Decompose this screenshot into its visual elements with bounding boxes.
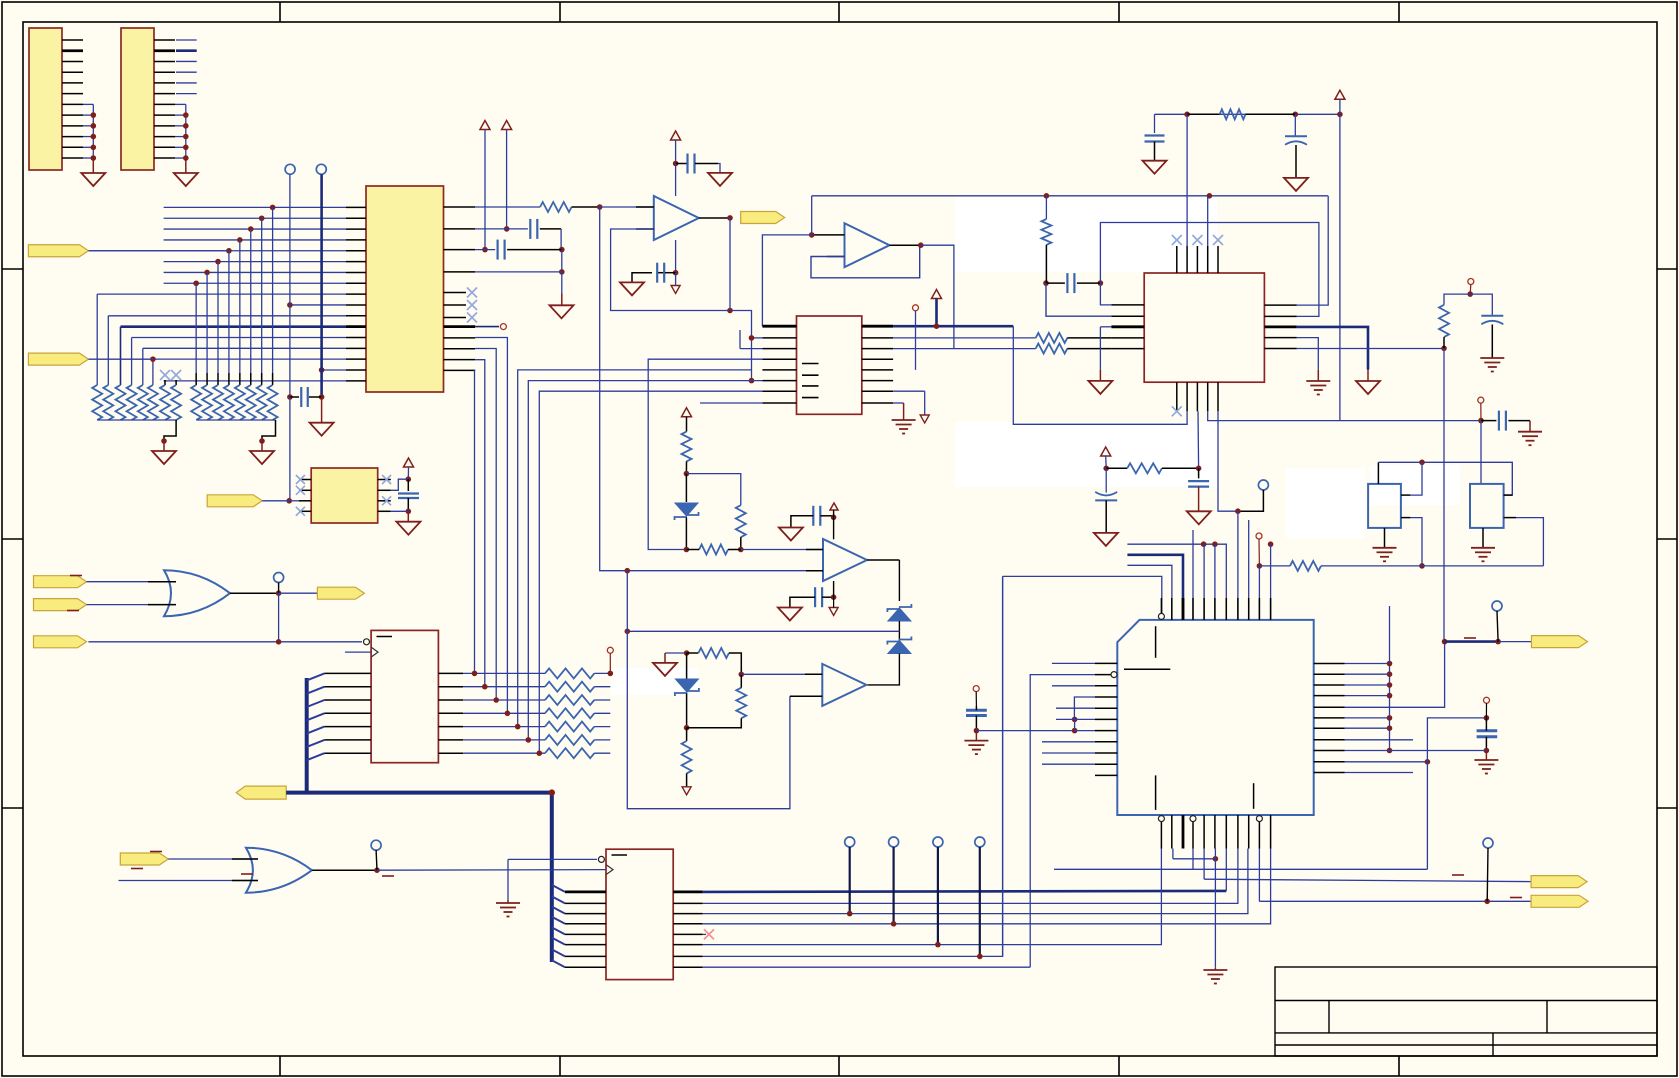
wire F11 [262,500,289,502]
ground G-C8 [1284,178,1308,191]
wire row554 bold [1127,555,1183,620]
capacitor C18 [407,479,409,491]
wire C14 to U7 [976,730,1074,732]
blank label box B [1286,468,1365,538]
connector J1 [29,28,62,170]
wire U2 pin6 row to U3 [528,381,762,740]
net flag F11 [207,495,262,507]
wire U7 left bubble pin [1030,675,1095,968]
bus entries U3 [307,673,325,680]
wire U7 gnd pin down [1172,849,1174,859]
pins U7 bottom [1160,815,1162,849]
wire U2 pin3 left [740,348,762,350]
no-connect circle NC5 [371,840,381,850]
pins U7 top [1160,598,1162,620]
power arrow P8 [830,503,838,510]
wire U2 pin8 right to earth [893,402,904,404]
wire U2A below cap [675,240,677,273]
ground G-C3 [708,173,732,186]
capacitor C12 polarized [1105,468,1107,492]
wire U2 pin1 net down and to U5 [1013,326,1187,424]
wire Y1 bottom earth [1384,528,1386,548]
no-ERC mark U5 bottom [1172,406,1182,416]
wire U6B minus input [790,695,822,697]
wire row913 [703,849,1248,914]
net flag F2 [28,353,88,365]
pins U3 right [438,672,463,674]
resistor R13 [686,417,688,432]
power arrow P2 [502,121,512,130]
net flag F9 [1531,876,1587,888]
wire U2A minus feedback [611,229,752,381]
wire C2b junctions [561,250,563,272]
wire feedback net vertical [627,571,790,809]
wire U7 right pin row761 [1345,761,1428,763]
wire diode bottom [867,654,899,685]
wire F1 [88,250,229,252]
wire U2 pin3 right to R7 [893,348,1036,350]
no-ERC marks U6 right [382,475,391,484]
pins U5 right [1264,304,1296,306]
wire row923 [703,849,1271,924]
ground G-Z2 [653,663,677,676]
wire U2A output [699,217,730,219]
capacitor C2a [475,228,528,230]
ground G-U5b [1356,381,1380,394]
MCU U7 [1117,620,1313,815]
no-connect circle NC2 [316,164,326,174]
wire row879 to flag [1203,849,1205,880]
IC U4 [606,849,673,979]
designator circle D4 [973,686,979,692]
wire grid rows into U1 [164,206,346,208]
wire gnd arrow z2 [665,652,687,654]
ground G-U5a [1088,381,1112,394]
wire F8 to G2 [168,858,258,860]
wires U7 right pins to rail [1345,663,1390,665]
blank label box C [611,668,699,695]
IC U3 [371,630,438,762]
wire row944 [703,849,1162,945]
connector J2 [121,28,154,170]
earth ground GE-Y1 [1373,547,1397,549]
op-amp U2A [654,196,699,240]
wire row544 [1127,544,1226,620]
wire zener1 top loop [686,474,740,506]
wire U5 pin5 right [1297,348,1444,350]
no-ERC marks U1 right [467,288,477,298]
wire F3 [87,581,177,583]
no-ERC mark U4 pin5 [703,933,706,935]
earth ground GE-U7 [1214,968,1216,970]
wire RP1 common to ground [97,419,176,421]
designator circle D5 [1484,697,1490,703]
no-ERC marks U6 left [296,475,305,484]
capacitor C2b [475,249,495,251]
earth ground GE-Y2 [1471,547,1495,549]
blank label box A [955,198,1217,272]
resistor R16 [687,652,699,654]
wire U6 pin4 right [391,510,409,512]
wire G1 to flag [279,592,318,594]
wires U3 row connects [463,672,545,674]
pins U1 right nc stubs [444,292,467,294]
wire R1 out to opamp U2A [600,206,654,208]
wire RP2 common to ground [197,419,276,421]
no-connect circle NC4 [274,573,284,583]
resistor R17 [736,688,746,719]
capacitor C-grid [287,394,293,400]
wire U4 pin1 from earth [508,858,597,860]
wire G1 output [230,592,279,594]
IC U6 [311,468,378,523]
wire C11 down to Y2 [1480,421,1482,484]
wire P1 stem [484,130,486,250]
wire chain to ground [561,272,563,294]
pins U1 right bottom [444,337,476,339]
pins U2 right [862,325,893,328]
earth ground GE-U5 [1306,380,1330,382]
wire cap to gnd x322 [321,397,323,423]
wire net462 [1378,462,1512,495]
wire gnd bus of J1 [83,103,93,105]
capacitor C4 [656,272,665,274]
capacitor C11 [1481,420,1496,422]
no-connect circles bottom [845,837,855,847]
or-gate G1 [164,570,230,616]
pins U5 top [1176,246,1178,273]
pins U4 left [565,891,606,894]
wire U7 left pin4 [1074,697,1095,719]
wire P3 stem [675,140,677,164]
no-connect circle NC1 [285,164,295,174]
no-ERC marks U5 top [1172,235,1182,245]
power arrow P4 [932,290,942,299]
ground of J2 [174,173,198,186]
net flag F5 [317,587,364,599]
ground G-C13 [1187,511,1211,524]
wires U3 verticals to U1 [475,338,507,714]
designator circle U2pin [913,305,919,311]
wire U7 right pin row739 [1345,739,1414,741]
op-amp U2B [845,223,890,267]
ground RP1 [152,451,176,464]
pins U6 left [299,479,311,481]
pins U3 left [324,672,371,674]
wire C15 to rail [1390,750,1487,752]
ground G-C2 [550,305,574,318]
capacitor C15 [1477,729,1498,732]
wire NC1 net down to U6 [289,397,291,501]
resistor R15 [699,545,728,555]
designator circle U1 pin [500,324,506,330]
bus main [286,793,552,962]
ground G-grid [310,423,334,436]
bubble U3 pin1 [364,639,370,645]
wire P4 stem bold [935,299,938,327]
resistor R1 [475,206,540,208]
resistor R14 [736,505,746,537]
wire row967 [703,966,1031,968]
pin bar U4 [612,854,628,856]
component Y2 box [1470,484,1504,528]
resistor R9 vertical [1045,196,1047,219]
pins U5 left [1111,304,1144,306]
resistor array RP1 [92,385,102,420]
blank label box D [955,422,1217,487]
wire F2 [88,358,152,360]
wire bus corner dot [549,789,555,795]
wire MCU top pins up [1192,530,1194,620]
wire U5 pin4 right earth [1297,338,1319,370]
wire U5 pin1 right up [1297,196,1328,305]
wire F4 [87,604,177,606]
wire NC2 vertical bold [320,174,323,397]
wire U7 right pin row707 to R10net [1345,642,1445,708]
arrow VEE U2A [671,286,680,294]
designator circle D2 [1478,397,1484,403]
wire G2 output [312,869,377,871]
wire G1 down to F6 net [278,593,280,642]
wire C2a corner [560,229,562,250]
wire Y2 bottom earth [1482,528,1484,548]
wire U7 left pin5 [1056,707,1095,709]
wire row271 to chain [475,271,562,273]
wire node down to MCU [1237,511,1239,620]
wire diode mid [898,621,900,641]
power arrow P1 [480,121,490,130]
pins U7 right [1314,663,1345,665]
wire U6B plus input [741,673,822,675]
wire to opamp U6A plus [741,549,823,551]
net flag F4 [34,599,87,611]
ground G-C17 [778,608,802,621]
wire U2B plus input [812,234,845,236]
pin U1 right bold [444,325,476,328]
pins U1 right top [444,206,476,208]
capacitor C7 [1154,114,1156,133]
wire C11 to earth [1529,421,1531,432]
wire row565 [1127,565,1172,620]
wire U6A output [867,559,899,561]
bubbles U7 bottom [1158,816,1164,822]
pins U5 bottom [1176,382,1178,411]
wire U5 pin to vcc net [1207,196,1209,246]
wire C3 to ground [718,164,720,173]
designator circle D1 [1468,279,1474,285]
or-gate G2 [246,848,312,893]
pin name bars U2 [802,363,819,365]
wire row576 [1003,576,1162,613]
wire cap C15 net [1427,718,1486,869]
resistor R6 [1036,333,1068,343]
earth ground GE-U4 [496,902,520,904]
earth ground GE-C11 [1518,431,1542,433]
op-amp U6B [822,664,866,706]
bus entries U4 [552,885,565,892]
wire U5 pin3 right bold gnd [1297,327,1368,370]
wire U2 pin1 bold right [893,325,1013,328]
bubble U7 left pin2 [1111,672,1117,678]
wire U7 left pin3 [1052,685,1095,687]
wire P2 stem [506,130,508,229]
wire U7 left pin row1 [1052,662,1095,664]
pins U6 right [378,479,391,481]
IC U5 [1144,273,1264,382]
ground G-C4 [620,282,644,295]
capacitor C10 polarized [1470,294,1492,316]
component Y1 box [1368,484,1401,528]
resistor R10 [1444,294,1470,305]
IC U1 [366,186,444,392]
arrow VEE Z2 [682,787,691,795]
net flag F10 [1531,895,1588,907]
net flag F3 [34,576,87,588]
ground G-C7 [1143,161,1167,174]
earth ground GE-C15 [1485,751,1487,761]
clock mark U4 [606,865,613,875]
wire U5 bottom pin3 to RC [1197,411,1200,468]
wire row903 [703,849,1238,904]
ground G-C12 [1094,533,1118,546]
diode D6 [888,608,911,621]
wire U3 clock stub [345,651,371,653]
wire U2 pin2-pin6 tie [752,337,763,339]
wire G2 input2 [119,880,259,882]
wire U2 pin5 row to U3 [518,370,752,727]
capacitor C13 [1198,468,1200,478]
wire row956 [703,576,1003,956]
net flag F8 [120,853,168,865]
clock mark U3 [371,647,378,657]
title block [1275,967,1657,1056]
wire U2 pin7 row to U3 [539,391,762,753]
bubble U4 pin1 [598,856,604,862]
wire Y2 top [1480,483,1482,485]
wire net to top right [812,195,1328,197]
arrow VEE U2 [893,390,925,392]
wire U7 left pin6 [1056,718,1075,720]
op-amp U6A [823,539,867,581]
ground G-U6 [407,511,409,521]
designator circle D3 [1256,533,1262,539]
earth ground GE-C14 [964,740,988,742]
wire U2 pin4 left to zener [648,359,762,549]
wire U5 bottom pin5 route [1218,411,1238,511]
wires grid verticals to resistor array RP1 [96,294,98,385]
net flag F-R1 [1532,636,1588,648]
wire U5 pin cap net [1186,114,1188,246]
wire U7 left lower pins [1042,741,1095,743]
pin bar U3 [377,636,393,638]
wire U7 right common rail [1389,606,1391,751]
resistor R12 [1106,467,1127,469]
earth ground GE-C10 [1480,357,1504,359]
net flag F1 [28,245,88,257]
wire Y1 right pins [1401,494,1411,496]
wire U2B output [890,244,921,246]
no-ERC marks RP1 [160,370,170,380]
ground of J1 [81,173,105,186]
capacitor C17 [814,587,816,607]
wire NC1 vertical [289,174,291,397]
resistor R18 [686,728,688,741]
wire Y2 right pins [1504,494,1513,496]
wire U2B minus loop [811,245,920,278]
diode D7 [888,641,911,654]
junction dots grid diagonal [270,205,276,211]
wire U7 right pin row772 [1345,772,1414,774]
wire loop U5 pin1 left [1100,283,1111,305]
pins U1 left [346,206,366,208]
wire net from R1 down to opamp minus [600,207,823,571]
small red dashes [70,575,82,577]
blank label box E [1370,465,1460,505]
capacitor C9 [1043,280,1049,286]
resistor array RP2 [191,385,201,420]
wire loop top [1100,223,1319,317]
net flag F-OUT1 [741,212,785,224]
power arrow P5 [1335,90,1345,99]
wires grid verticals to resistor array RP2 [272,207,274,373]
power arrow P6 [1101,447,1111,456]
resistor R7 [1036,344,1068,354]
wire R10 long vertical [1443,348,1445,641]
power arrow P7 [682,408,692,417]
no-connect circle NC7 [1492,601,1502,611]
power arrow P3 [671,131,681,140]
zener Z2 [686,653,688,679]
pins U4 right [673,891,702,894]
wire U5 pin3 left gnd [1100,326,1111,328]
wire misc vertical 1 [1002,576,1004,956]
capacitor C3 [676,163,687,165]
no-connect circle NC3 [1258,480,1268,490]
wire U3 clock from flag [88,641,362,643]
designator circle D6b [607,647,613,653]
capacitor C8 polarized [1294,114,1296,136]
power arrow P9 [404,458,414,467]
pins U7 left [1095,662,1117,664]
wire VCC down right [1339,114,1341,420]
zener Z1 [685,474,687,502]
wire U5 bottom pin4 to VCC rail [1208,411,1481,420]
wire gnd bus of J2 [175,103,186,105]
ground G-C16 [779,528,803,541]
bubble U7 top pin1 [1158,613,1164,619]
wire NC3 to node [1238,490,1264,511]
wire VCC rail top right [1155,113,1340,115]
wire P3 to opamp [675,164,677,197]
IC U2 [797,316,862,414]
arrow VEE U6A [829,608,838,616]
wire U2 pin2 right to R6 [893,337,1036,339]
wire row901 to flag [1258,849,1260,902]
wire U7 bottom bubble pin row869 [1054,868,1193,870]
wire R9 net to U5 pin2 [1046,283,1111,316]
pin1 bars U7 [1155,626,1157,658]
wire G2 to U4 clock [377,869,606,872]
capacitor C14 [966,709,987,712]
capacitor C16 [812,506,814,526]
wire U6 pin2 up [391,479,409,490]
wire row891 bold [703,891,1227,892]
wire flag line 641 bold [1445,640,1499,643]
bus flag F7 [236,786,286,799]
ground RP2 [250,451,274,464]
resistor R11 [1259,565,1290,567]
wires J2 stubs [176,39,197,41]
